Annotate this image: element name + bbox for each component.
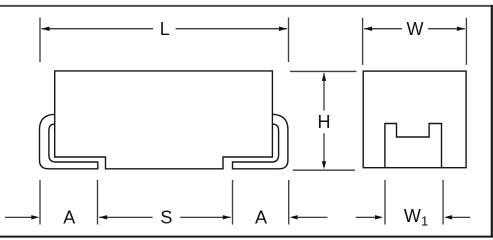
border frame top — [0, 5, 493, 7]
dimension A right arrow — [290, 215, 298, 219]
extension line A1 left — [39, 180, 41, 225]
dimension W extension line right — [465, 18, 467, 65]
svg-text:A: A — [63, 207, 75, 227]
svg-text:W: W — [407, 19, 424, 39]
dimension W1 left arrow — [375, 215, 383, 219]
dimension L arrow right — [279, 27, 287, 31]
extension line W1 right — [442, 180, 444, 225]
capacitor body side view with bottom pedestal — [55, 71, 273, 169]
dimension H arrow top — [322, 73, 326, 81]
dimension H extension line bottom — [293, 169, 355, 171]
extension line W1 left — [384, 180, 386, 225]
border frame right — [491, 5, 493, 238]
svg-text:1: 1 — [421, 214, 428, 229]
svg-text:L: L — [160, 19, 170, 39]
capacitor body front view — [363, 71, 466, 168]
dimension W extension line left — [362, 18, 364, 65]
dimension H line — [323, 73, 325, 162]
dimension S arrow left — [99, 215, 107, 219]
dimension W1 right outside arrow line — [452, 216, 470, 218]
extension line A2 right — [288, 180, 290, 225]
dimension H extension line top — [290, 70, 357, 72]
terminal right (side view J-lead) — [233, 114, 288, 169]
dimension W1 right arrow — [444, 215, 452, 219]
dimension S arrow right — [223, 215, 231, 219]
dimension W1 left outside arrow line — [356, 216, 376, 218]
svg-text:A: A — [255, 207, 267, 227]
dimension W line — [364, 28, 465, 30]
dimension L extension line left — [39, 18, 41, 63]
svg-text:H: H — [318, 112, 331, 132]
terminal left (side view J-lead) — [40, 114, 98, 169]
dimension L extension line right — [288, 18, 290, 63]
terminal front view (notched tab) — [385, 124, 442, 168]
dimension S line — [99, 216, 231, 218]
dimension A right outside arrow line — [298, 216, 328, 218]
svg-text:W: W — [404, 206, 421, 226]
dimension A left outside arrow line — [5, 216, 32, 218]
dimension W arrow right — [457, 27, 465, 31]
dimension L arrow left — [42, 27, 50, 31]
dimension A left arrow — [31, 215, 39, 219]
dimension L line — [42, 28, 288, 30]
extension line A1 right / S left — [97, 180, 99, 225]
dimension W arrow left — [364, 27, 372, 31]
dimension H arrow bottom — [322, 161, 326, 169]
svg-text:S: S — [160, 207, 172, 227]
border frame bottom — [0, 236, 493, 238]
extension line S right / A2 left — [232, 180, 234, 225]
